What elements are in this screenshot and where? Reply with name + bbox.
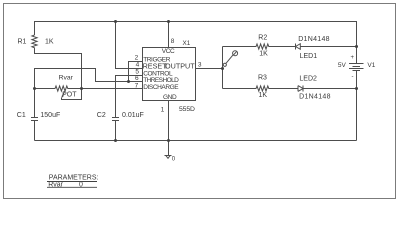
svg-text:0: 0 (172, 156, 176, 162)
svg-text:3: 3 (198, 61, 202, 68)
svg-text:D1N4148: D1N4148 (299, 93, 331, 100)
svg-text:V1: V1 (367, 62, 375, 69)
svg-text:2: 2 (135, 54, 139, 61)
svg-text:OUTPUT: OUTPUT (165, 62, 195, 71)
svg-text:+: + (351, 55, 355, 61)
svg-text:R3: R3 (258, 75, 267, 82)
svg-text:VCC: VCC (162, 48, 175, 55)
svg-text:1K: 1K (259, 92, 268, 99)
svg-text:1K: 1K (45, 39, 54, 46)
svg-text:Rvar: Rvar (59, 75, 74, 82)
svg-text:PARAMETERS:: PARAMETERS: (49, 175, 99, 182)
svg-text:POT: POT (62, 92, 77, 99)
svg-text:X1: X1 (183, 40, 191, 47)
svg-text:1: 1 (161, 107, 165, 114)
svg-text:C2: C2 (97, 112, 106, 119)
svg-text:0.01uF: 0.01uF (122, 112, 144, 119)
svg-text:7: 7 (135, 82, 139, 89)
svg-text:4: 4 (136, 61, 140, 68)
svg-text:-: - (352, 74, 354, 80)
svg-text:8: 8 (171, 38, 175, 45)
svg-text:R1: R1 (18, 39, 27, 46)
svg-text:5V: 5V (338, 62, 347, 69)
svg-text:GND: GND (163, 94, 177, 101)
svg-text:LED1: LED1 (300, 53, 318, 60)
svg-text:C1: C1 (17, 112, 26, 119)
svg-text:RESET: RESET (143, 62, 168, 71)
svg-text:DISCHARGE: DISCHARGE (143, 84, 179, 91)
svg-text:555D: 555D (179, 106, 195, 113)
svg-text:1K: 1K (259, 51, 268, 58)
svg-text:6: 6 (135, 75, 139, 82)
svg-text:D1N4148: D1N4148 (298, 36, 330, 43)
svg-text:150uF: 150uF (40, 112, 60, 119)
svg-text:R2: R2 (258, 35, 267, 42)
svg-text:LED2: LED2 (299, 75, 317, 82)
